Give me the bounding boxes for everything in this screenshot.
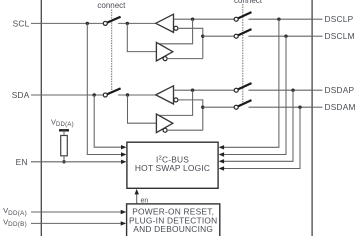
junction dot DSDAP net <box>191 89 194 92</box>
arrowhead into hot-swap left (SCL) <box>121 152 127 156</box>
wire receiver U1R + input to DSCLP net <box>174 18 235 20</box>
arrowhead into POR (VDD(A)) <box>121 210 127 214</box>
junction dot EN/R1 <box>62 160 65 163</box>
switch SW4M contact circle (DSDAM) <box>234 105 238 109</box>
wire DSCLP bus to hot-swap logic <box>223 19 279 147</box>
svg-text:DSDAP: DSDAP <box>325 85 355 95</box>
dashed control line (left, connect) <box>111 10 113 93</box>
switch SW3 blade <box>107 88 120 94</box>
junction dot DSCLP bus <box>277 18 280 21</box>
wire SCL sense drop to hot-swap logic <box>87 23 122 154</box>
dashed control line (right, connect) <box>242 4 244 103</box>
IC outer box right edge <box>311 0 313 236</box>
junction dot SCL driver tap <box>126 22 129 25</box>
wire resistor R1 to EN line <box>63 156 65 162</box>
arrowhead into hot-swap right (DSDAP) <box>219 159 225 163</box>
wire DSCLP net to driver U1D P output <box>159 19 192 44</box>
wire receiver U2R + input to DSDAP net <box>174 89 235 91</box>
receiver U2R (SDA, points left) <box>156 86 174 104</box>
junction dot SDA drop <box>93 93 96 96</box>
switch SW2P contact circle (DSCLP) <box>234 17 238 21</box>
wire DSCLM net to switch SW2P <box>203 35 235 37</box>
wire SDA pin to switch SW3 <box>31 94 103 96</box>
bubble driver U1D inverted output <box>163 57 167 61</box>
supply bar VDD(A) <box>59 129 69 131</box>
receiver U1R (SCL, points left) <box>156 14 174 32</box>
pin stub DSDAP <box>312 89 322 91</box>
svg-text:DSCLM: DSCLM <box>325 31 355 41</box>
wire SCL pin to switch SW1 <box>31 22 103 24</box>
junction dot DSDAM bus <box>298 106 301 109</box>
arrowhead en (up into hot-swap) <box>135 189 139 195</box>
wire VDD(B) pin to POR block <box>31 222 122 224</box>
driver U1D (SCL, points right) <box>156 42 172 61</box>
wire SDA to driver U2D input <box>128 95 157 123</box>
wire driver U1D M output <box>167 58 203 60</box>
wire SCL to driver U1D input <box>127 23 156 51</box>
wire receiver U2R - input to DSDAM net <box>178 100 203 130</box>
pin stub DSCLP <box>312 18 322 20</box>
junction dot DSCLM net <box>201 35 204 38</box>
wire SW3 to receiver U2R tip <box>118 94 156 96</box>
svg-text:connect: connect <box>97 1 126 10</box>
wire driver U2D M output <box>167 129 203 131</box>
wire DSDAM net to switch SW4M <box>203 106 235 108</box>
arrowhead into POR (VDD(B)) <box>121 221 127 225</box>
arrowhead into hot-swap right (DSDAM) <box>219 166 225 170</box>
block U4 power-on reset <box>127 204 220 238</box>
pin stub DSCLM <box>312 35 322 37</box>
junction dot SDA driver tap <box>126 93 129 96</box>
svg-text:connect: connect <box>234 0 263 5</box>
junction dot DSDAM net <box>201 106 204 109</box>
resistor R1 (EN pull-up) <box>61 136 68 156</box>
svg-text:DSDAM: DSDAM <box>325 102 356 112</box>
pin stub DSDAM <box>312 106 322 108</box>
block U3 I2C-bus hot swap logic <box>127 142 218 188</box>
wire DSDAM bus to hot-swap logic <box>223 107 301 168</box>
bubble receiver U1R inverting input <box>174 26 178 30</box>
junction dot DSCLM bus <box>284 35 287 38</box>
junction dot DSDAP bus <box>291 89 294 92</box>
wire SW1 to receiver U1R tip <box>118 22 156 24</box>
switch SW2M blade <box>238 29 251 35</box>
wire switch SW2P to DSCLP pin <box>249 18 313 20</box>
wire VDD(A) pin to POR block <box>31 211 122 213</box>
svg-text:AND DEBOUNCING: AND DEBOUNCING <box>133 224 213 234</box>
junction dot SCL drop <box>86 22 89 25</box>
wire EN pin to hot-swap logic <box>31 161 123 163</box>
junction dot DSCLP net <box>191 18 194 21</box>
IC outer box left edge <box>40 0 42 236</box>
driver U2D (SDA, points right) <box>156 114 172 133</box>
switch SW4P blade <box>238 83 251 89</box>
wire DSCLM bus to hot-swap logic <box>223 36 287 154</box>
wire switch SW4M to DSDAM pin <box>249 106 313 108</box>
arrowhead into hot-swap left (SDA) <box>121 145 127 149</box>
wire SDA sense drop to hot-swap logic <box>94 95 122 147</box>
svg-text:HOT SWAP LOGIC: HOT SWAP LOGIC <box>135 163 210 173</box>
bubble receiver U2R inverting input <box>174 98 178 102</box>
switch SW3 contact circle <box>103 93 107 97</box>
svg-text:DSCLP: DSCLP <box>325 14 354 24</box>
svg-text:EN: EN <box>16 157 28 167</box>
switch SW4P contact circle (DSDAP) <box>234 88 238 92</box>
arrowhead into hot-swap left (EN) <box>121 160 127 164</box>
wire switch SW2M to DSCLM pin <box>249 35 313 37</box>
bubble driver U2D inverted output <box>163 128 167 132</box>
arrowhead into hot-swap right (DSCLP) <box>219 145 225 149</box>
arrowhead into hot-swap right (DSCLM) <box>219 152 225 156</box>
switch SW1 blade <box>107 17 120 23</box>
switch SW2P blade <box>238 12 251 18</box>
wire supply bar to resistor R1 <box>63 130 65 135</box>
wire DSDAP net to driver U2D P output <box>159 90 192 115</box>
switch SW1 contact circle <box>103 21 107 25</box>
wire receiver U1R - input to DSCLM net <box>178 28 203 58</box>
switch SW4M blade <box>238 100 251 106</box>
svg-text:SCL: SCL <box>13 18 30 28</box>
wire switch SW4P to DSDAP pin <box>249 89 313 91</box>
wire DSDAP bus to hot-swap logic <box>223 90 294 161</box>
svg-text:SDA: SDA <box>12 90 30 100</box>
wire en POR to hot-swap <box>136 191 138 204</box>
switch SW2M contact circle (DSCLM) <box>234 34 238 38</box>
